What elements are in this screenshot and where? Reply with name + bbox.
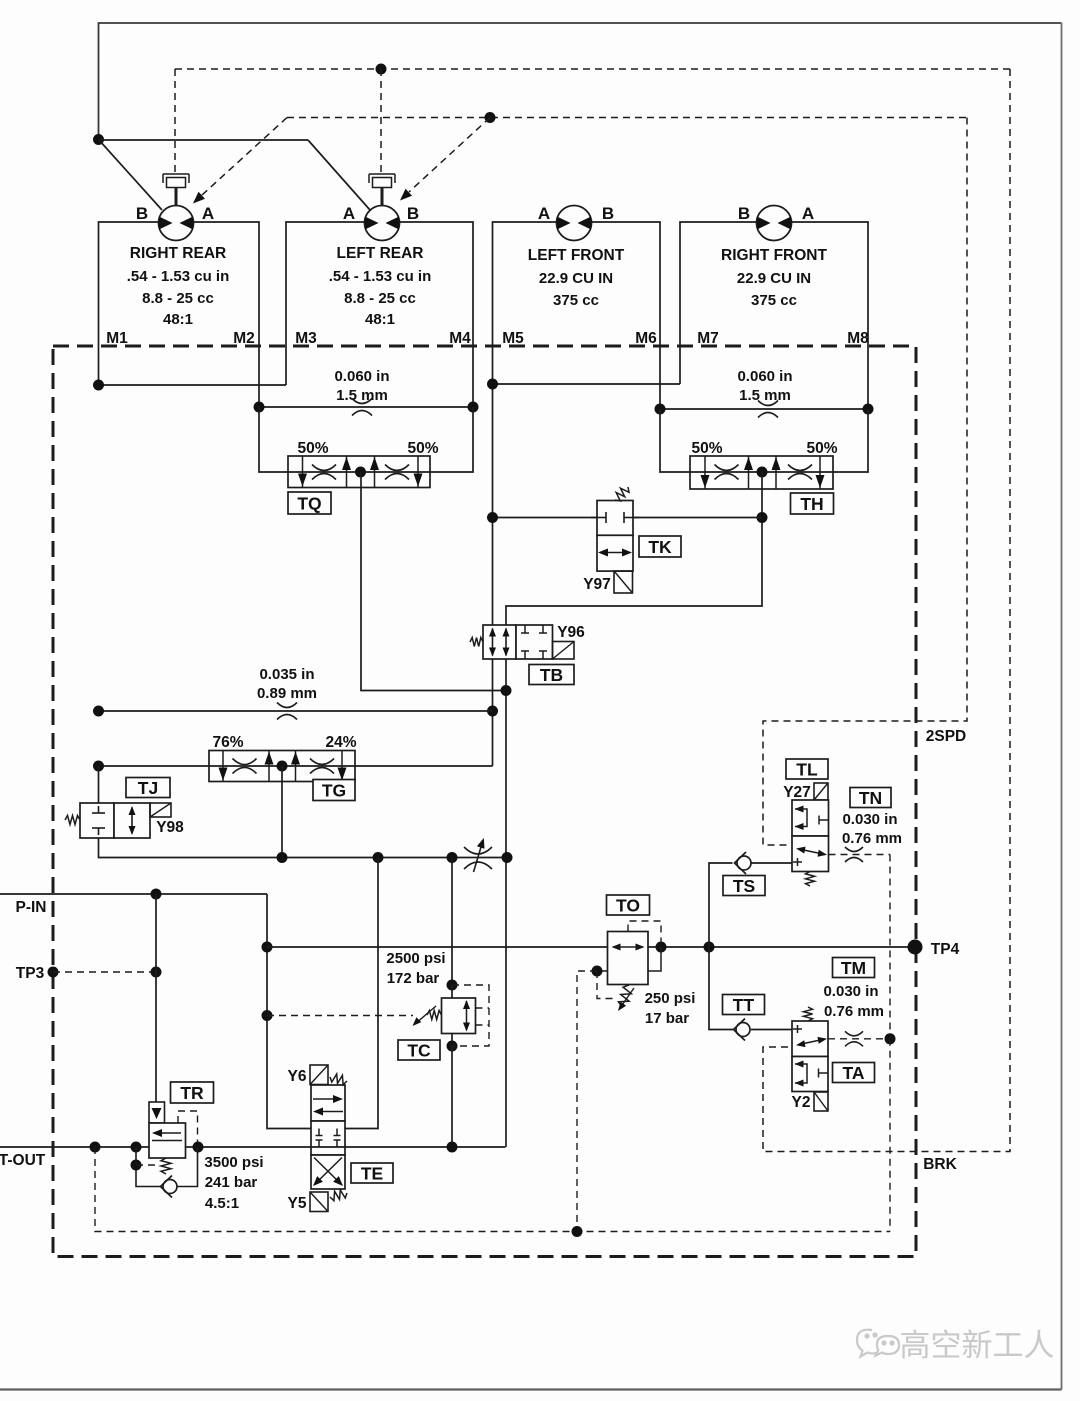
svg-text:LEFT REAR: LEFT REAR — [337, 245, 424, 262]
svg-text:TH: TH — [800, 494, 823, 514]
svg-text:0.030 in: 0.030 in — [842, 811, 897, 828]
svg-text:B: B — [136, 204, 148, 223]
wire M2 to M4 with orifice — [259, 406, 473, 408]
svg-text:22.9 CU IN: 22.9 CU IN — [539, 270, 613, 287]
svg-text:A: A — [802, 204, 814, 223]
check valve TT — [736, 1023, 750, 1037]
svg-text:TL: TL — [796, 759, 818, 779]
svg-text:3500 psi: 3500 psi — [204, 1154, 263, 1171]
dashed TR vent to spring — [136, 1164, 158, 1166]
motor RIGHT REAR (variable) — [159, 206, 194, 241]
wire to TS check valve — [709, 863, 733, 947]
wire junction to LEFT REAR branch — [99, 139, 309, 141]
wire branch to LEFT REAR motor A port — [308, 140, 370, 210]
label TS — [723, 876, 765, 896]
valve TB — [483, 625, 516, 659]
label TH — [791, 493, 834, 514]
solenoid Y96 — [553, 642, 575, 660]
svg-text:BRK: BRK — [923, 1156, 957, 1173]
valve TO pressure reducing — [608, 932, 649, 985]
svg-text:0.060 in: 0.060 in — [737, 368, 792, 385]
svg-text:TT: TT — [733, 995, 755, 1015]
dashed TN down to brake junction — [889, 855, 891, 1038]
label TE — [351, 1163, 393, 1183]
valve TE three position — [311, 1085, 345, 1121]
svg-text:0.76 mm: 0.76 mm — [842, 830, 902, 847]
svg-text:48:1: 48:1 — [365, 311, 395, 328]
motor LEFT REAR (variable) — [365, 206, 400, 241]
svg-text:50%: 50% — [407, 440, 438, 457]
wire through divider TH — [690, 471, 833, 473]
box LEFT REAR motor — [286, 222, 473, 346]
svg-text:250 psi: 250 psi — [645, 990, 696, 1007]
svg-text:B: B — [738, 204, 750, 223]
svg-text:375 cc: 375 cc — [553, 292, 599, 309]
svg-text:M1: M1 — [106, 330, 128, 347]
svg-text:Y98: Y98 — [156, 819, 184, 836]
wire TO drain stub — [597, 970, 608, 972]
svg-text:TP3: TP3 — [16, 965, 45, 982]
label TN — [850, 788, 891, 808]
spring TL — [806, 872, 815, 887]
dashed TO top pilot — [628, 921, 661, 943]
spring TR — [161, 1158, 171, 1174]
label TM — [833, 958, 875, 978]
dashed net2 down right side 2SPD — [763, 118, 967, 846]
svg-text:2500 psi: 2500 psi — [386, 950, 445, 967]
label TK — [639, 536, 681, 557]
wire TB left port down to orifice line — [492, 659, 494, 766]
wire M1 to M3 — [99, 384, 287, 386]
wire TJ riser to TG divider — [99, 765, 210, 767]
svg-text:0.76 mm: 0.76 mm — [824, 1003, 884, 1020]
wire through divider TG — [209, 765, 355, 767]
svg-text:TP4: TP4 — [931, 941, 960, 958]
svg-text:50%: 50% — [691, 440, 722, 457]
dashed drop to RIGHT REAR control — [174, 69, 176, 174]
wire divider TQ center down to TB drop — [361, 472, 506, 691]
label TJ — [126, 778, 170, 798]
svg-text:M4: M4 — [449, 330, 471, 347]
dashed TO spring vent — [597, 971, 617, 999]
wire M5 to M7 — [493, 383, 681, 385]
svg-text:TQ: TQ — [297, 493, 321, 513]
svg-text:24%: 24% — [325, 734, 356, 751]
label TT — [723, 995, 765, 1015]
svg-text:TG: TG — [322, 780, 346, 800]
node junction top-left — [93, 134, 104, 145]
motor RIGHT FRONT — [757, 206, 792, 241]
svg-text:375 cc: 375 cc — [751, 292, 797, 309]
svg-text:TE: TE — [361, 1163, 383, 1183]
spring TC adjustable — [427, 1011, 442, 1020]
svg-text:LEFT FRONT: LEFT FRONT — [528, 247, 625, 264]
node brake pilot junction — [885, 1033, 896, 1044]
svg-text:TK: TK — [648, 537, 672, 557]
svg-text:B: B — [407, 204, 419, 223]
spring TB — [470, 638, 483, 647]
svg-text:T-OUT: T-OUT — [0, 1152, 46, 1169]
svg-text:TO: TO — [616, 895, 640, 915]
svg-text:50%: 50% — [806, 440, 837, 457]
dashed diagonal to LEFT REAR motor arrow — [409, 118, 490, 193]
needle valve adjustable restrictor — [464, 847, 492, 854]
wire M8 down to divider TH — [833, 409, 868, 472]
svg-text:M6: M6 — [635, 330, 657, 347]
svg-text:TR: TR — [180, 1083, 204, 1103]
svg-text:RIGHT REAR: RIGHT REAR — [130, 245, 226, 262]
check valve TS — [737, 856, 751, 870]
wire M2 port down — [258, 346, 260, 407]
spring TA — [804, 1007, 813, 1021]
box RIGHT REAR motor — [99, 222, 260, 346]
svg-text:4.5:1: 4.5:1 — [205, 1195, 239, 1212]
wire through divider TQ — [288, 471, 430, 473]
orifice TM — [845, 1031, 863, 1036]
solenoid Y97 — [614, 571, 633, 593]
svg-text:8.8 - 25 cc: 8.8 - 25 cc — [142, 290, 214, 307]
valve TJ — [80, 803, 114, 838]
svg-text:0.89 mm: 0.89 mm — [257, 685, 317, 702]
svg-text:172 bar: 172 bar — [387, 970, 440, 987]
svg-text:M8: M8 — [847, 330, 869, 347]
dashed diagonal to RIGHT REAR motor arrow — [202, 118, 287, 196]
svg-text:1.5 mm: 1.5 mm — [739, 387, 791, 404]
wire M5 port down — [492, 346, 494, 625]
wire TK pilot line — [493, 517, 763, 519]
solenoid Y98 — [150, 803, 171, 817]
orifice TN — [845, 847, 863, 852]
wire M7 port down — [679, 346, 681, 384]
wire bottom border — [0, 1388, 1062, 1390]
test point TP4 — [908, 940, 923, 955]
check valve TR bypass — [163, 1180, 177, 1194]
svg-text:22.9 CU IN: 22.9 CU IN — [737, 270, 811, 287]
svg-text:P-IN: P-IN — [16, 899, 47, 916]
svg-text:TS: TS — [733, 876, 755, 896]
wire TR bypass check loop — [136, 1147, 161, 1187]
svg-text:TC: TC — [407, 1040, 431, 1060]
orifice 0.060in front — [758, 401, 778, 406]
label TR — [171, 1082, 214, 1103]
svg-text:RIGHT FRONT: RIGHT FRONT — [721, 247, 827, 264]
wire M8 port down — [867, 346, 869, 409]
svg-text:241 bar: 241 bar — [205, 1174, 258, 1191]
wire P-IN — [0, 893, 267, 895]
node on net2 — [485, 112, 496, 123]
label TG — [313, 780, 355, 801]
svg-text:Y5: Y5 — [288, 1195, 307, 1212]
svg-text:Y96: Y96 — [557, 624, 585, 641]
wire TO output pilot loop — [648, 947, 661, 971]
svg-text:高空新工人: 高空新工人 — [900, 1328, 1055, 1363]
svg-text:17 bar: 17 bar — [645, 1010, 689, 1027]
dashed TC pilot loop — [452, 985, 489, 1046]
orifice 0.035in — [277, 703, 297, 708]
svg-text:TM: TM — [841, 958, 866, 978]
valve TR check section — [149, 1102, 165, 1123]
svg-text:TB: TB — [540, 665, 563, 685]
dashed TL output through orifice TN — [829, 854, 891, 856]
label TQ — [288, 492, 331, 514]
dashed pilot line net1 horizontal — [175, 68, 1010, 70]
wire M6 port down — [659, 346, 661, 409]
wire P-IN branch down to TR — [155, 894, 157, 1102]
wire M3 port down — [285, 346, 287, 385]
dashed pilot line net2 horizontal — [287, 117, 967, 119]
wire needle branch down to TC — [451, 858, 453, 986]
wire M4 down to divider TQ — [430, 407, 473, 472]
wire TJ bottom to needle line — [99, 838, 283, 858]
watermark wechat logo — [857, 1330, 899, 1357]
solenoid Y5 — [310, 1192, 328, 1212]
svg-text:Y6: Y6 — [288, 1068, 307, 1085]
wire pressure line to TO valve — [267, 946, 608, 948]
wire P-IN down to TE valve — [267, 894, 311, 1129]
svg-text:M7: M7 — [697, 330, 719, 347]
wire divider TG center down to needle line — [281, 766, 283, 858]
label TC — [398, 1040, 440, 1060]
wire TJ top — [98, 766, 100, 803]
spring TO adjustable — [618, 985, 631, 1007]
node on net1 — [376, 64, 387, 75]
wire TB to TG divider — [355, 765, 493, 767]
svg-text:M3: M3 — [295, 330, 317, 347]
dashed TO drain to bottom — [577, 971, 597, 1232]
dashed TC vent from P-IN branch — [267, 1015, 413, 1017]
label TL — [786, 759, 828, 779]
wire needle line — [282, 857, 507, 859]
wire M2 down to divider TQ — [259, 407, 288, 472]
svg-text:0.060 in: 0.060 in — [334, 368, 389, 385]
dashed net1 right side down to BRK box — [763, 69, 1010, 1152]
svg-text:8.8 - 25 cc: 8.8 - 25 cc — [344, 290, 416, 307]
solenoid Y2 — [814, 1092, 828, 1111]
dashed brake line down — [889, 1039, 891, 1232]
wire to TT check valve — [709, 947, 733, 1030]
wire top border from motors junction to right edge — [99, 23, 1062, 139]
svg-text:TJ: TJ — [138, 778, 158, 798]
label TB — [529, 665, 574, 685]
valve TK — [597, 501, 633, 536]
wire divider TH center down and over to TB — [506, 472, 762, 625]
flow divider TG — [209, 751, 355, 782]
svg-text:1.5 mm: 1.5 mm — [336, 387, 388, 404]
svg-text:76%: 76% — [212, 734, 243, 751]
wire junction to RIGHT REAR motor B port — [99, 140, 163, 211]
wire orifice 0.035 line — [99, 710, 493, 712]
wire M4 port down — [472, 346, 474, 407]
svg-text:Y97: Y97 — [583, 576, 611, 593]
wire TB right port down to T-OUT riser — [505, 659, 507, 1147]
wire M6 to M8 with orifice — [660, 408, 868, 410]
dashed drop to LEFT REAR control — [380, 69, 382, 174]
wire M6 down to divider TH — [660, 409, 690, 472]
valve TL — [792, 800, 829, 836]
valve TA — [792, 1021, 828, 1057]
svg-text:48:1: 48:1 — [163, 311, 193, 328]
wire TT to TA valve — [751, 1029, 792, 1031]
valve TR main — [149, 1123, 186, 1158]
dashed TA output through orifice TM — [828, 1038, 890, 1040]
flow divider TQ — [288, 456, 430, 488]
svg-text:0.035 in: 0.035 in — [259, 666, 314, 683]
box LEFT FRONT motor — [493, 222, 661, 346]
wire TS to TL valve — [752, 862, 793, 864]
svg-text:A: A — [343, 204, 355, 223]
box RIGHT FRONT motor — [680, 222, 868, 346]
svg-text:M5: M5 — [502, 330, 524, 347]
valve TC — [442, 998, 476, 1034]
svg-text:B: B — [602, 204, 614, 223]
solenoid Y27 — [814, 783, 828, 800]
wire T-OUT — [0, 1146, 506, 1148]
svg-text:.54 - 1.53 cu in: .54 - 1.53 cu in — [127, 268, 230, 285]
svg-text:A: A — [538, 204, 550, 223]
test point TP3 — [48, 967, 59, 978]
motor LEFT FRONT — [557, 206, 592, 241]
svg-text:A: A — [202, 204, 214, 223]
wire TC down to T-OUT — [451, 1046, 453, 1147]
flow divider TH — [690, 456, 833, 489]
dashed case drain down from T-OUT — [95, 1147, 890, 1232]
solenoid Y6 — [310, 1065, 328, 1085]
dashed manifold boundary box — [53, 346, 916, 1257]
wire right border — [1061, 23, 1063, 1390]
svg-text:Y2: Y2 — [792, 1094, 811, 1111]
wire TE right port up to needle line — [345, 858, 378, 1129]
label TO — [607, 895, 650, 915]
svg-text:TN: TN — [859, 788, 882, 808]
wire M1 port down — [98, 346, 100, 385]
wire TO valve to TP4 — [648, 946, 915, 948]
label TA — [833, 1063, 875, 1083]
orifice 0.060in rear — [352, 399, 372, 404]
svg-text:M2: M2 — [233, 330, 255, 347]
svg-text:0.030 in: 0.030 in — [823, 983, 878, 1000]
svg-text:Y27: Y27 — [783, 784, 811, 801]
spring TJ — [65, 816, 80, 825]
svg-text:.54 - 1.53 cu in: .54 - 1.53 cu in — [329, 268, 432, 285]
svg-text:TA: TA — [842, 1063, 864, 1083]
dashed TR pilot to outlet — [178, 1111, 198, 1143]
svg-text:2SPD: 2SPD — [926, 728, 967, 745]
svg-text:50%: 50% — [297, 440, 328, 457]
